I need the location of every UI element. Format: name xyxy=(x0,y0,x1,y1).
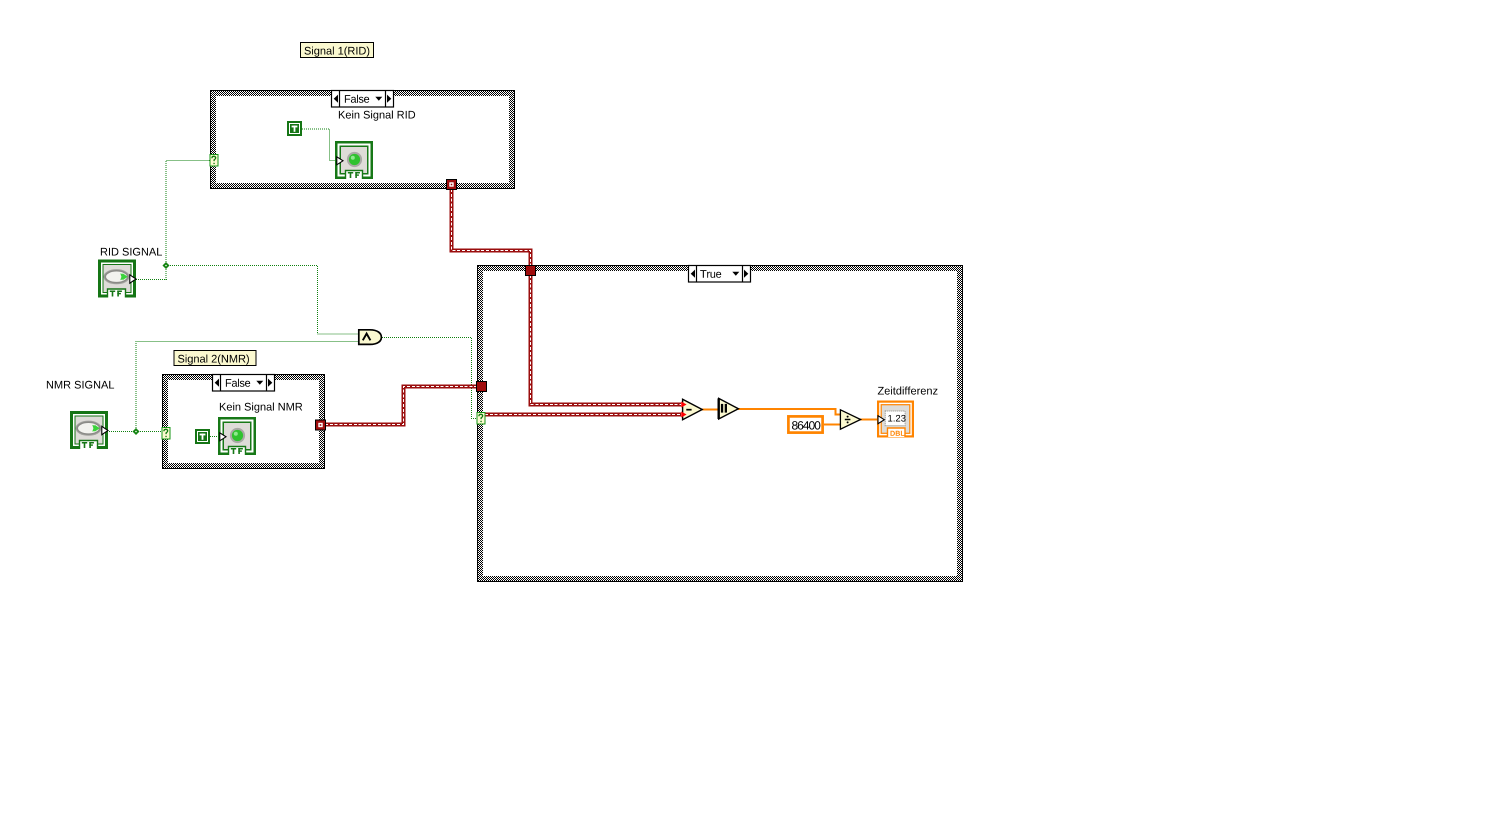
LED indicator terminal Kein Signal NMR xyxy=(218,417,256,455)
LED indicator terminal Kein Signal RID xyxy=(335,141,373,179)
wire: timestamp inside True case from top tunnel to subtract top input xyxy=(531,275,682,405)
wire: timestamp inside True case to subtract bottom input xyxy=(485,413,681,417)
subtract function xyxy=(681,399,702,419)
input tunnel True case top xyxy=(526,266,536,276)
wire: boolean from T constant to LED in case 1 xyxy=(302,129,336,161)
wire: boolean junction to case2 selector xyxy=(136,431,162,433)
wire: boolean from AND gate output to True case selector xyxy=(382,338,477,419)
wire: boolean junction up and right to AND gate xyxy=(136,342,358,433)
comment text Kein Signal RID xyxy=(339,111,415,121)
free label Signal 1(RID) xyxy=(301,43,374,58)
node: wire junction RID xyxy=(162,262,169,269)
case 2 selector "False" xyxy=(213,375,275,392)
wire: DBL orange 86400 to divide xyxy=(824,424,841,426)
label RID SIGNAL xyxy=(101,248,162,256)
case structure True border xyxy=(478,266,963,582)
AND gate xyxy=(359,330,382,345)
divide function xyxy=(840,410,860,429)
node: wire junction NMR xyxy=(132,428,139,435)
wire: boolean from RID SIGNAL control to junction xyxy=(136,279,167,281)
selector tunnel ? of case 1 xyxy=(210,155,218,167)
free label Signal 2(NMR) xyxy=(174,351,256,366)
label NMR SIGNAL xyxy=(47,381,114,389)
output tunnel case 1 bottom xyxy=(447,180,457,190)
numeric constant 86400 xyxy=(788,416,822,432)
wire: DBL orange absolute value to divide xyxy=(738,409,841,415)
wire: DBL orange subtract to absolute value xyxy=(702,409,719,411)
selector tunnel ? of True case xyxy=(477,413,485,425)
case 1 selector "False" xyxy=(332,91,394,108)
boolean constant T in case 2 xyxy=(195,429,210,444)
output tunnel case 2 right xyxy=(316,420,326,430)
wire arrow into subtract top input xyxy=(681,402,686,408)
boolean constant T in case 1 xyxy=(287,121,302,136)
numeric indicator Zeitdifferenz xyxy=(877,401,914,438)
selector tunnel ? of case 2 xyxy=(162,428,170,440)
wire: boolean junction up to case1 selector xyxy=(166,161,210,281)
comment text Kein Signal NMR xyxy=(220,403,302,413)
True case selector "True" xyxy=(689,266,751,283)
input tunnel True case left xyxy=(477,382,487,392)
wire: timestamp from case1 bottom tunnel to True case top tunnel xyxy=(452,189,531,266)
wire: boolean from NMR SIGNAL control to junction xyxy=(107,431,137,433)
wire: timestamp from case2 right tunnel to True case left tunnel xyxy=(325,387,476,425)
case structure 1 (False) border xyxy=(211,91,515,189)
wire: boolean junction right toward AND gate xyxy=(166,266,358,335)
boolean control terminal NMR SIGNAL xyxy=(70,411,108,449)
wire arrow into subtract bottom input xyxy=(681,412,686,418)
wire: DBL orange divide to indicator xyxy=(860,419,878,421)
wire: boolean from T constant to LED in case 2 xyxy=(210,436,220,438)
case structure 2 (False) border xyxy=(163,375,325,469)
absolute value function xyxy=(719,398,739,419)
boolean control terminal RID SIGNAL xyxy=(98,260,136,298)
label Zeitdifferenz xyxy=(878,387,938,395)
